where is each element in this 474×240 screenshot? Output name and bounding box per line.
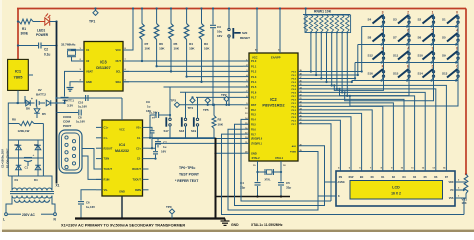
svg-text:XTAL1= 11.0592MHz: XTAL1= 11.0592MHz	[251, 223, 283, 227]
svg-text:P2.1: P2.1	[292, 103, 297, 105]
svg-text:R4: R4	[189, 42, 193, 46]
svg-text:TP4: TP4	[188, 106, 194, 110]
svg-text:COM: COM	[63, 120, 71, 124]
svg-text:25: 25	[300, 112, 302, 114]
svg-text:DS1307: DS1307	[96, 65, 111, 70]
svg-text:D1-D6=1N4007: D1-D6=1N4007	[5, 148, 9, 168]
svg-text:10K: 10K	[174, 47, 180, 51]
svg-text:C1-: C1-	[104, 136, 108, 140]
svg-text:TP2: TP2	[221, 93, 227, 97]
svg-text:R/W: R/W	[349, 176, 354, 179]
svg-text:VCC: VCC	[252, 56, 258, 60]
svg-text:VCC: VCC	[119, 128, 125, 132]
svg-text:16 X 2: 16 X 2	[391, 192, 401, 196]
svg-text:P3.2: P3.2	[251, 110, 256, 112]
svg-text:C2-: C2-	[137, 157, 141, 161]
svg-text:S8: S8	[368, 36, 372, 40]
svg-text:P2.4: P2.4	[292, 112, 297, 115]
svg-text:0.1u: 0.1u	[44, 53, 50, 57]
svg-text:CON1: CON1	[63, 115, 72, 119]
svg-text:C2+: C2+	[136, 146, 141, 150]
svg-text:TP0: TP0	[166, 205, 172, 209]
svg-text:S2: S2	[418, 18, 422, 22]
svg-text:LCD: LCD	[392, 186, 400, 190]
svg-text:P2.5: P2.5	[292, 117, 297, 119]
svg-text:R8: R8	[12, 118, 16, 122]
svg-text:32.768kHz: 32.768kHz	[61, 43, 76, 47]
svg-text:C1: C1	[25, 166, 29, 170]
svg-text:3.3V: 3.3V	[67, 104, 73, 108]
svg-text:VO: VO	[450, 189, 454, 192]
svg-text:P0.3: P0.3	[292, 82, 297, 84]
svg-text:XTAL1: XTAL1	[275, 156, 284, 160]
svg-text:P1.5: P1.5	[251, 85, 257, 89]
svg-text:16V: 16V	[161, 150, 166, 154]
svg-text:C3: C3	[217, 25, 221, 29]
svg-text:BATT.1: BATT.1	[64, 99, 74, 103]
svg-text:2: 2	[407, 11, 409, 15]
svg-text:S12: S12	[368, 54, 374, 58]
svg-text:S17: S17	[164, 129, 170, 133]
svg-text:EA/VPP: EA/VPP	[271, 56, 281, 60]
svg-text:S16: S16	[368, 72, 374, 76]
svg-text:SDA: SDA	[116, 80, 122, 84]
svg-text:P0.7: P0.7	[292, 96, 297, 98]
svg-text:P1.6: P1.6	[251, 90, 257, 94]
svg-text:GND: GND	[231, 223, 239, 227]
svg-text:C9: C9	[146, 100, 150, 104]
svg-text:RST: RST	[251, 103, 257, 107]
svg-text:16V: 16V	[146, 109, 151, 113]
svg-text:P3.3: P3.3	[251, 115, 256, 117]
svg-text:PORT: PORT	[63, 124, 72, 128]
svg-text:SCL: SCL	[116, 70, 122, 74]
svg-text:C1+: C1+	[104, 126, 109, 130]
svg-text:(RXD)P3.0: (RXD)P3.0	[251, 139, 263, 141]
svg-text:OUT: OUT	[116, 59, 122, 63]
svg-text:P2.2: P2.2	[292, 106, 297, 108]
svg-text:EN: EN	[360, 176, 364, 179]
svg-text:10K: 10K	[189, 47, 195, 51]
svg-text:P2.0: P2.0	[292, 99, 297, 101]
svg-text:R1: R1	[22, 27, 26, 31]
svg-text:PSEN: PSEN	[290, 152, 296, 154]
svg-text:10K: 10K	[159, 47, 165, 51]
svg-text:P0.5: P0.5	[292, 89, 297, 91]
svg-text:R5: R5	[174, 42, 178, 46]
svg-text:27: 27	[300, 119, 302, 121]
svg-text:P1.1: P1.1	[251, 64, 257, 68]
svg-text:+: +	[31, 97, 33, 101]
svg-text:1u,16V: 1u,16V	[78, 105, 87, 109]
svg-text:S11: S11	[393, 54, 399, 58]
svg-text:P1.3: P1.3	[251, 75, 257, 79]
svg-text:28: 28	[300, 122, 302, 124]
svg-text:R3: R3	[204, 42, 208, 46]
svg-text:VSS: VSS	[449, 197, 454, 200]
svg-text:K: K	[338, 195, 340, 198]
svg-text:S14: S14	[418, 72, 424, 76]
svg-text:R2OUT: R2OUT	[104, 146, 113, 150]
svg-text:(TXD)P3.1: (TXD)P3.1	[251, 144, 263, 146]
svg-text:RNW1 10K: RNW1 10K	[314, 10, 332, 14]
svg-text:X1: X1	[86, 48, 90, 52]
svg-text:R7: R7	[145, 42, 149, 46]
svg-text:BATT.2: BATT.2	[36, 93, 46, 97]
svg-text:IC2: IC2	[270, 97, 277, 102]
svg-text:T2OUT: T2OUT	[132, 178, 141, 182]
svg-text:P1.2: P1.2	[251, 70, 257, 74]
svg-text:230V AC: 230V AC	[22, 213, 36, 217]
svg-text:30: 30	[300, 144, 302, 146]
svg-text:C6: C6	[86, 201, 90, 205]
svg-text:10K: 10K	[204, 47, 210, 51]
svg-text:0: 0	[456, 11, 458, 15]
svg-text:P0.0: P0.0	[292, 72, 297, 74]
svg-text:21: 21	[300, 98, 302, 100]
svg-text:D3: D3	[34, 143, 38, 147]
svg-text:LED1: LED1	[37, 29, 45, 33]
svg-text:P0.6: P0.6	[292, 92, 297, 94]
svg-text:R6: R6	[159, 42, 163, 46]
svg-text:P3.4: P3.4	[251, 119, 256, 122]
svg-text:9V: 9V	[38, 88, 42, 92]
svg-text:R2IN: R2IN	[135, 188, 141, 192]
svg-text:1u,16V: 1u,16V	[86, 205, 95, 209]
svg-text:P1.0: P1.0	[251, 59, 257, 63]
svg-text:10K: 10K	[145, 47, 151, 51]
svg-text:RS: RS	[339, 176, 343, 179]
svg-text:22: 22	[300, 101, 302, 103]
svg-text:10u: 10u	[217, 30, 222, 34]
svg-text:29: 29	[300, 150, 302, 152]
svg-text:R2: R2	[218, 118, 222, 122]
svg-text:GND: GND	[86, 80, 92, 84]
svg-text:1u,16V: 1u,16V	[76, 120, 85, 124]
svg-text:* REFER TEXT: * REFER TEXT	[175, 179, 199, 183]
svg-text:S10: S10	[418, 54, 424, 58]
svg-text:VS-: VS-	[104, 188, 108, 192]
svg-text:C5: C5	[286, 181, 290, 185]
svg-text:1u: 1u	[163, 145, 167, 149]
svg-text:S7: S7	[393, 36, 397, 40]
svg-text:D4: D4	[34, 178, 38, 182]
svg-text:C1=1000u,35V: C1=1000u,35V	[1, 149, 5, 168]
svg-text:P3.7: P3.7	[251, 134, 256, 136]
svg-text:TP1: TP1	[89, 20, 95, 24]
svg-text:GND: GND	[119, 190, 125, 194]
svg-text:D6: D6	[26, 107, 30, 111]
svg-text:POWER: POWER	[36, 33, 49, 37]
svg-text:S15: S15	[393, 72, 399, 76]
svg-text:TP5: TP5	[203, 108, 209, 112]
svg-text:S1: S1	[442, 18, 446, 22]
svg-text:VDD: VDD	[448, 181, 453, 184]
svg-text:R1OUT: R1OUT	[132, 167, 141, 171]
svg-text:1: 1	[432, 11, 434, 15]
svg-text:S9: S9	[442, 54, 446, 58]
svg-text:S5: S5	[442, 36, 446, 40]
svg-text:S6: S6	[418, 36, 422, 40]
svg-text:P0.2: P0.2	[292, 78, 297, 80]
svg-text:IC4: IC4	[119, 143, 126, 147]
svg-text:C2: C2	[44, 48, 48, 52]
svg-text:S4: S4	[368, 18, 372, 22]
svg-text:16V: 16V	[217, 34, 222, 38]
svg-text:VS+: VS+	[136, 126, 141, 130]
svg-text:VBAT: VBAT	[86, 70, 93, 74]
svg-text:XTAL: XTAL	[265, 179, 272, 182]
svg-text:XTAL2: XTAL2	[252, 156, 261, 160]
svg-text:ALE: ALE	[292, 145, 297, 148]
svg-text:P0.1: P0.1	[292, 75, 297, 77]
svg-text:D1: D1	[15, 178, 19, 182]
svg-text:D5: D5	[42, 112, 46, 116]
svg-text:S3: S3	[393, 18, 397, 22]
svg-text:X2: X2	[86, 59, 90, 63]
svg-text:TP3: TP3	[171, 99, 177, 103]
svg-text:T2IN: T2IN	[104, 157, 110, 161]
svg-text:P1.4: P1.4	[251, 80, 257, 84]
svg-text:X1: X1	[56, 184, 60, 188]
svg-text:GND: GND	[251, 151, 257, 155]
svg-text:S18: S18	[179, 129, 185, 133]
svg-text:120E,1W: 120E,1W	[18, 129, 30, 133]
svg-text:7805: 7805	[14, 75, 24, 80]
svg-text:D2: D2	[15, 143, 19, 147]
svg-text:X1=230V AC PRIMARY TO 9V,500mA: X1=230V AC PRIMARY TO 9V,500mA SECONDARY…	[61, 223, 185, 228]
svg-text:S20: S20	[242, 31, 248, 35]
svg-text:+: +	[33, 153, 35, 157]
svg-text:T1OUT: T1OUT	[104, 167, 113, 171]
svg-text:IC1: IC1	[15, 69, 22, 74]
svg-text:33p: 33p	[286, 186, 291, 190]
svg-text:RESET: RESET	[240, 36, 250, 40]
svg-text:P0.4: P0.4	[292, 84, 297, 87]
svg-text:MAX232: MAX232	[115, 149, 129, 153]
svg-text:3: 3	[382, 11, 384, 15]
svg-text:10K: 10K	[218, 123, 224, 127]
svg-text:S13: S13	[442, 72, 448, 76]
svg-text:IC3: IC3	[100, 60, 107, 65]
svg-text:300E: 300E	[21, 32, 28, 36]
svg-text:A/VEE: A/VEE	[338, 181, 346, 184]
svg-text:P89V51RD2: P89V51RD2	[262, 103, 285, 108]
svg-text:26: 26	[300, 115, 302, 117]
svg-text:P3.6: P3.6	[251, 129, 256, 131]
svg-text:P2.7: P2.7	[292, 124, 297, 126]
svg-text:R1IN: R1IN	[104, 178, 110, 182]
svg-text:TP0~TP5=: TP0~TP5=	[179, 166, 195, 170]
svg-text:P2.6: P2.6	[292, 120, 297, 122]
svg-text:P3.5: P3.5	[251, 125, 256, 127]
svg-text:P2.3: P2.3	[292, 110, 297, 112]
svg-text:P1.7: P1.7	[251, 96, 257, 100]
svg-text:VCC: VCC	[116, 48, 122, 52]
svg-text:1u: 1u	[147, 105, 151, 109]
svg-text:C1-: C1-	[137, 136, 141, 140]
svg-text:L: L	[3, 218, 5, 222]
svg-text:S19: S19	[191, 129, 197, 133]
svg-text:TEST POINT: TEST POINT	[179, 173, 200, 177]
svg-text:23: 23	[300, 105, 302, 107]
